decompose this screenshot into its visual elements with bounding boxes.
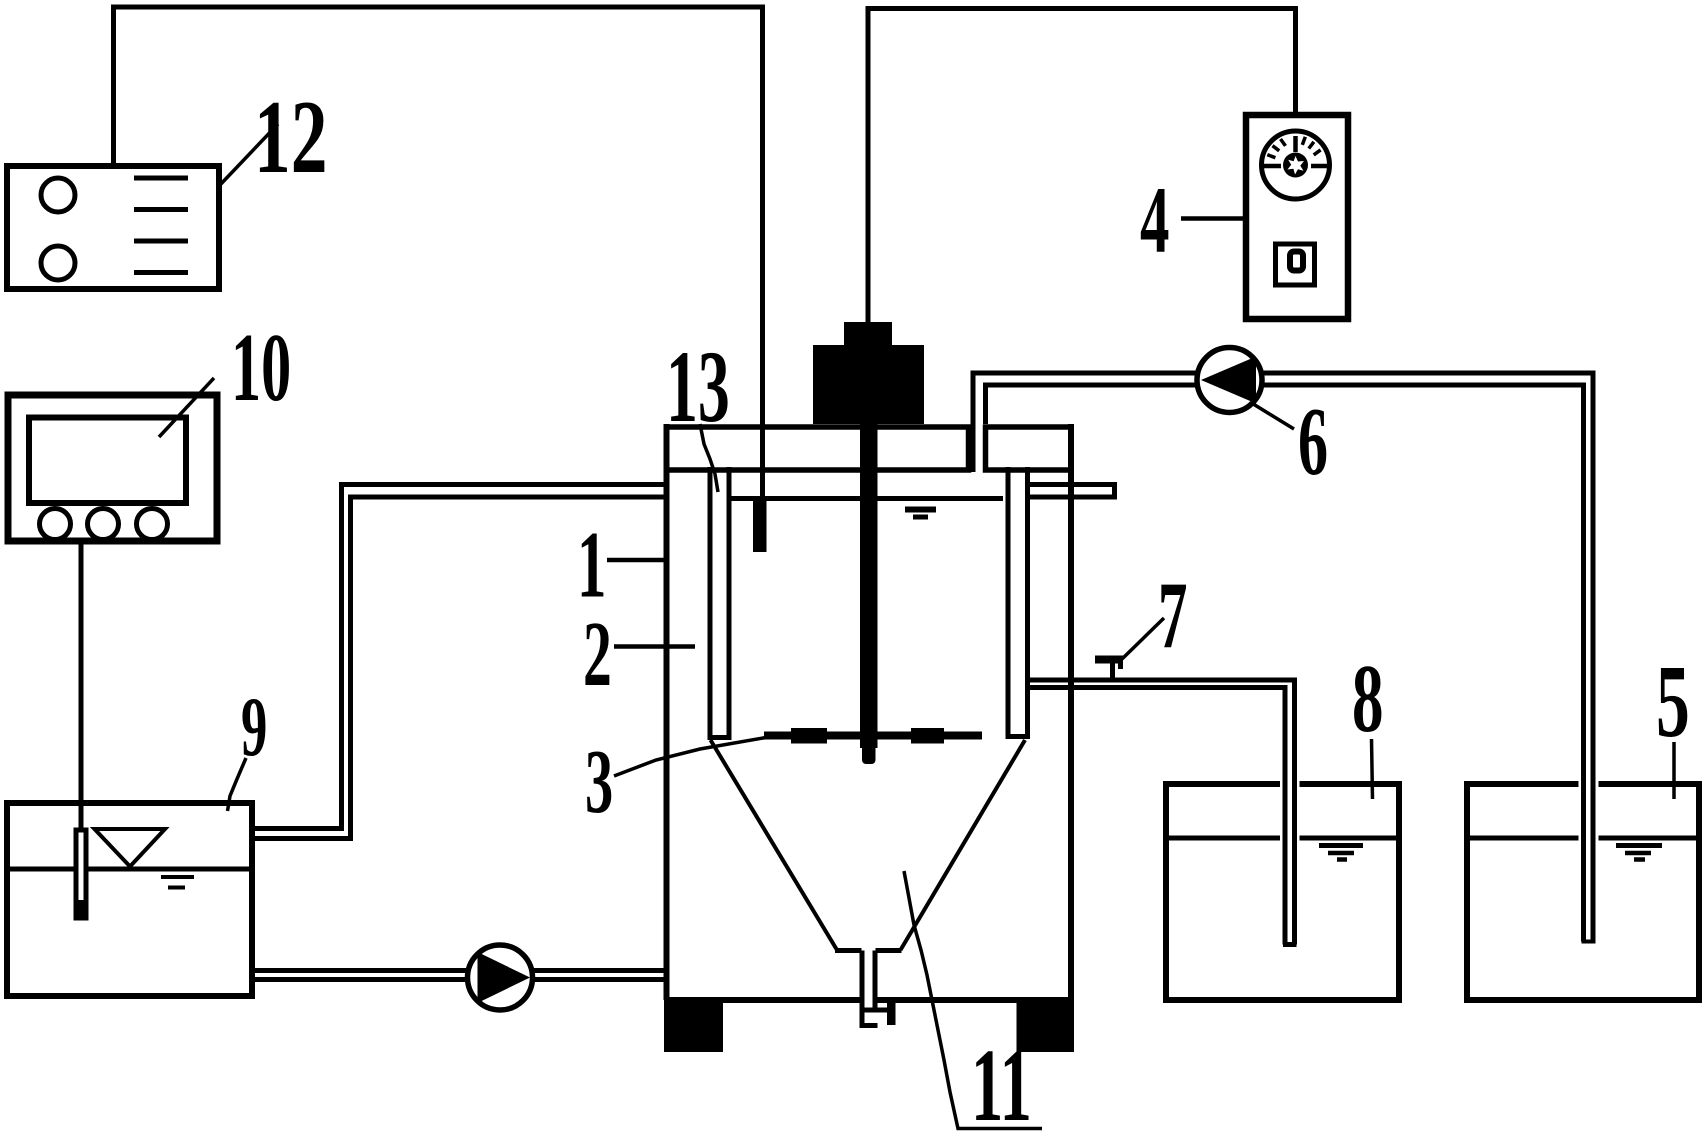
collection tank 8: [1166, 784, 1399, 1000]
pipe tank9 to pump to reactor: [252, 971, 666, 980]
gauge ticks: [1264, 136, 1329, 166]
svg-text:12: 12: [254, 78, 327, 195]
inner vessel wall left 2: [708, 467, 732, 738]
impeller blade right: [911, 728, 944, 744]
collection tank 5: [1467, 784, 1699, 1000]
leader line 9: [228, 758, 247, 811]
leader line 7: [1122, 618, 1164, 659]
stirrer shaft: [860, 424, 878, 748]
svg-text:9: 9: [241, 680, 267, 774]
svg-text:4: 4: [1140, 169, 1169, 274]
tank8 water line: [1166, 836, 1399, 841]
tank5 level symbol: [1616, 843, 1662, 848]
leader line 3: [614, 738, 766, 777]
cone 11 left slope: [711, 740, 838, 950]
inner vessel wall right: [1006, 467, 1031, 737]
circulation pipe through lid to pump 6 to tank 5: [973, 373, 1593, 942]
wire from top to motor and power box 4: [868, 9, 1296, 323]
box12 circle button lower: [41, 246, 75, 280]
box12 circle button upper: [41, 178, 75, 212]
drain tube: [860, 951, 888, 1029]
reactor bottom: [664, 997, 1074, 1003]
reactor outer wall right: [1068, 424, 1074, 1000]
box10 screen: [29, 418, 186, 504]
svg-text:5: 5: [1656, 644, 1690, 759]
valve 7: [1110, 659, 1115, 680]
feed pump: [468, 945, 533, 1010]
gauge dial: [1262, 131, 1330, 199]
svg-text:6: 6: [1298, 389, 1328, 496]
switch: [1276, 244, 1315, 285]
box12 text lines: [134, 178, 188, 273]
reactor lid right section: [986, 427, 1072, 470]
svg-text:3: 3: [585, 733, 613, 833]
leader line 6: [1250, 402, 1294, 429]
electrode 13 tip: [753, 499, 767, 552]
jacket port right with cap: [1030, 482, 1115, 500]
feed tank 9: [7, 803, 252, 996]
tank9 water line: [7, 867, 249, 872]
impeller plate 3: [764, 732, 982, 740]
tank9 level triangle symbol: [95, 829, 166, 867]
motor: [844, 322, 892, 346]
leader line 4: [1181, 216, 1243, 221]
vessel water dashes: [905, 507, 936, 513]
reactor foot left: [664, 1003, 723, 1053]
pipe tank9 to reactor jacket upper: [252, 485, 668, 829]
drain bar: [887, 1001, 896, 1025]
tank9 level probe: [76, 830, 86, 918]
reactor lid left section: [667, 427, 969, 470]
leader line 2: [614, 644, 695, 649]
svg-text:8: 8: [1352, 644, 1384, 752]
vessel water line: [731, 496, 1003, 501]
leader line 13: [700, 424, 718, 492]
controller box 12: [7, 166, 219, 289]
display box 10: [8, 395, 217, 541]
leader line 8: [1372, 739, 1373, 799]
svg-text:13: 13: [666, 330, 730, 444]
svg-text:11: 11: [971, 1027, 1032, 1136]
svg-text:10: 10: [231, 315, 291, 422]
wire from controller 12 to electrode 13: [114, 7, 763, 499]
tank5 water line: [1467, 836, 1699, 841]
power box 4: [1246, 115, 1348, 319]
leader line 11: [904, 871, 1042, 1129]
outlet pipe with valve 7 to tank 8: [1030, 680, 1297, 945]
wire box10 to probe: [79, 544, 84, 830]
leader line 12: [219, 124, 278, 186]
svg-text:2: 2: [583, 602, 612, 705]
leader line 10: [159, 378, 214, 437]
tank9 level dashes: [161, 877, 194, 888]
reactor foot right: [1017, 1003, 1075, 1053]
cone bottom edges: [835, 948, 902, 953]
gauge hub: [1283, 153, 1308, 178]
cone 11 right slope: [901, 740, 1026, 950]
circulation pump 6: [1197, 348, 1262, 413]
tank8 level symbol: [1319, 843, 1363, 848]
impeller blade left: [791, 728, 827, 744]
leader line 1: [607, 558, 666, 563]
reactor outer wall left 1: [664, 424, 670, 1000]
box10 buttons: [40, 509, 71, 540]
svg-text:7: 7: [1158, 564, 1187, 669]
leader line 5: [1672, 742, 1676, 799]
